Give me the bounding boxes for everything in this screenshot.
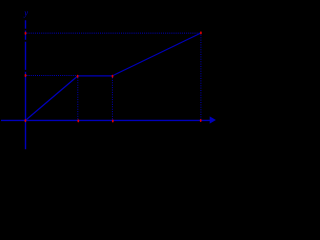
red point H1-left: [25, 32, 27, 35]
x-axis arrowhead: [210, 116, 216, 123]
x-axis: [1, 119, 210, 121]
graph segment C rising: [112, 33, 201, 76]
svg-text:y: y: [23, 8, 28, 18]
red point H1-right: [200, 31, 202, 34]
red point x1: [77, 119, 79, 122]
red point corner1: [77, 75, 79, 78]
dotted horizontal H2: [27, 75, 77, 77]
dotted vertical V1: [77, 78, 79, 120]
red point H2-left: [25, 74, 27, 77]
red point x2: [112, 120, 114, 123]
dotted vertical V2: [111, 78, 113, 120]
axis gap artifacts near points: [25, 29, 27, 31]
dotted horizontal H1: [27, 32, 201, 34]
red point x3: [200, 119, 202, 122]
dotted vertical V3: [200, 35, 202, 120]
y-axis: [25, 20, 27, 149]
red point origin: [25, 119, 27, 122]
red point corner2: [112, 75, 114, 78]
graph segment A rising: [26, 76, 113, 121]
